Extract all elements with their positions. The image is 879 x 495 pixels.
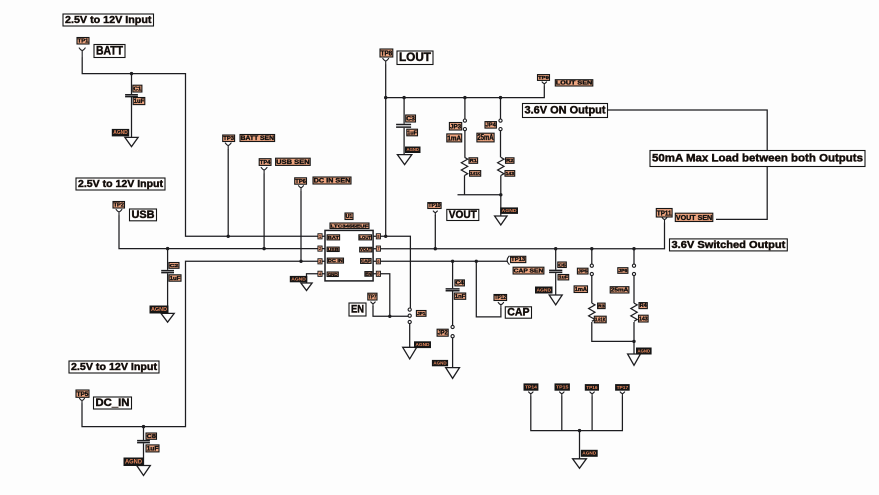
svg-text:LOUT SEN: LOUT SEN — [556, 81, 592, 87]
svg-text:AGND: AGND — [416, 342, 431, 347]
svg-text:3.61K: 3.61K — [470, 171, 480, 177]
svg-text:VOUT: VOUT — [449, 209, 477, 221]
svg-text:BAT: BAT — [328, 235, 339, 241]
svg-text:USB: USB — [328, 247, 339, 253]
svg-text:1mA: 1mA — [447, 134, 461, 142]
svg-text:TP2: TP2 — [114, 203, 124, 209]
svg-text:TP4: TP4 — [260, 160, 271, 166]
svg-text:LOUT: LOUT — [399, 51, 431, 64]
svg-text:1uF: 1uF — [147, 445, 159, 452]
svg-text:TP12: TP12 — [495, 295, 507, 301]
svg-text:C4: C4 — [456, 281, 465, 287]
svg-text:JP5: JP5 — [578, 269, 588, 275]
svg-text:TP7: TP7 — [368, 295, 377, 301]
svg-text:1uF: 1uF — [407, 130, 417, 136]
svg-text:R4: R4 — [640, 303, 647, 309]
svg-text:TP10: TP10 — [428, 203, 440, 209]
svg-text:C3: C3 — [406, 116, 415, 123]
svg-text:CAP SEN: CAP SEN — [514, 269, 544, 275]
svg-text:TP16: TP16 — [586, 385, 598, 390]
svg-text:C5: C5 — [558, 262, 566, 268]
svg-text:VOUT SEN: VOUT SEN — [676, 213, 712, 222]
svg-text:2.5V to 12V Input: 2.5V to 12V Input — [71, 362, 158, 373]
svg-text:TP3: TP3 — [223, 136, 234, 142]
svg-text:1nF: 1nF — [455, 294, 466, 300]
svg-text:R1: R1 — [470, 158, 478, 164]
svg-text:AGND: AGND — [638, 348, 651, 353]
svg-text:25mA: 25mA — [478, 133, 494, 142]
svg-text:3.6V ON Output: 3.6V ON Output — [525, 105, 606, 117]
svg-text:AGND: AGND — [151, 307, 167, 313]
svg-text:DC IN: DC IN — [328, 258, 344, 264]
svg-text:2.5V to 12V Input: 2.5V to 12V Input — [65, 15, 152, 26]
svg-text:DC_IN: DC_IN — [96, 397, 130, 409]
svg-text:CAP: CAP — [507, 307, 530, 319]
svg-text:C1: C1 — [134, 87, 143, 93]
svg-text:TP14: TP14 — [525, 385, 537, 391]
svg-text:AGND: AGND — [113, 130, 128, 136]
svg-text:EN: EN — [351, 304, 364, 316]
svg-text:AGND: AGND — [125, 460, 143, 466]
svg-text:R3: R3 — [598, 303, 605, 309]
svg-text:USB SEN: USB SEN — [276, 159, 310, 166]
svg-text:LTC3455EUF: LTC3455EUF — [331, 223, 369, 229]
svg-text:R2: R2 — [506, 158, 514, 164]
svg-text:TP13: TP13 — [511, 257, 525, 263]
svg-text:DC IN SEN: DC IN SEN — [314, 178, 351, 185]
svg-text:TP6: TP6 — [295, 179, 306, 185]
svg-text:3.6V Switched Output: 3.6V Switched Output — [672, 240, 786, 251]
svg-text:TP15: TP15 — [556, 385, 569, 391]
svg-text:JP4: JP4 — [486, 123, 497, 129]
svg-text:C8: C8 — [147, 434, 156, 440]
svg-text:3.61K: 3.61K — [595, 317, 606, 323]
svg-text:TP5: TP5 — [77, 391, 89, 398]
svg-text:JP3: JP3 — [450, 123, 461, 130]
svg-text:GND: GND — [328, 272, 338, 278]
svg-text:25mA: 25mA — [611, 288, 629, 294]
svg-text:JP6: JP6 — [618, 268, 627, 274]
svg-text:BATT: BATT — [96, 44, 123, 57]
svg-text:AGND: AGND — [582, 451, 597, 456]
svg-text:TP17: TP17 — [617, 385, 629, 390]
svg-text:1uF: 1uF — [134, 98, 145, 105]
svg-text:AGND: AGND — [433, 361, 447, 366]
svg-text:AGND: AGND — [291, 277, 306, 282]
svg-text:LOUT: LOUT — [360, 235, 371, 241]
svg-text:143: 143 — [506, 171, 515, 177]
svg-text:1uF: 1uF — [559, 275, 569, 281]
svg-text:AGND: AGND — [407, 147, 420, 152]
svg-text:JP2: JP2 — [438, 330, 448, 337]
svg-text:2.5V to 12V Input: 2.5V to 12V Input — [78, 179, 164, 190]
svg-text:1uF: 1uF — [170, 276, 182, 282]
svg-text:TP1: TP1 — [78, 39, 89, 45]
svg-text:EN: EN — [366, 271, 372, 277]
svg-text:JP1: JP1 — [417, 311, 426, 317]
svg-text:TP11: TP11 — [657, 208, 672, 217]
svg-text:AGND: AGND — [502, 208, 518, 213]
svg-text:1mA: 1mA — [575, 287, 587, 293]
svg-text:VOUT: VOUT — [360, 247, 371, 253]
svg-text:C2: C2 — [170, 263, 179, 269]
svg-text:50mA Max Load between both Out: 50mA Max Load between both Outputs — [652, 153, 863, 165]
svg-text:BATT SEN: BATT SEN — [241, 135, 274, 142]
svg-text:USB: USB — [132, 209, 155, 221]
svg-text:AGND: AGND — [537, 287, 552, 292]
svg-text:143: 143 — [639, 317, 648, 323]
svg-text:TP8: TP8 — [381, 49, 393, 57]
svg-text:CAP: CAP — [361, 258, 371, 264]
svg-text:TP9: TP9 — [538, 75, 549, 81]
svg-text:U1: U1 — [346, 214, 353, 220]
